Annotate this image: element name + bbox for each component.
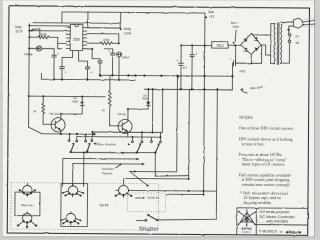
wire 7812 output (180, 44, 212, 46)
svg-text:100k: 100k (103, 38, 110, 42)
svg-text:◆Baker◆: ◆Baker◆ (285, 230, 303, 234)
label Duty 10% (15, 25, 40, 37)
svg-text:at rear of box.: at rear of box. (242, 141, 265, 146)
transformer T1 (274, 23, 282, 65)
svg-text:TIP 112: TIP 112 (49, 112, 60, 116)
fuse F1 1A SB (288, 31, 299, 45)
wire lower rail (144, 74, 233, 90)
svg-text:remains near motors yourself.: remains near motors yourself. (242, 182, 291, 187)
wire primary leads (280, 22, 293, 63)
label Up int (99, 203, 109, 207)
svg-text:Duty: Duty (124, 27, 131, 31)
wire pin connections left of U1 (28, 23, 120, 33)
wire driver feed (28, 95, 83, 98)
transistor Q1 (43, 114, 65, 134)
capacitor C5 .1 (104, 49, 115, 76)
diode D4 1N4003 (127, 88, 150, 110)
resistor R2 100k (100, 38, 112, 45)
svg-text:4700: 4700 (239, 69, 246, 73)
switch S2 shutter lever (136, 214, 216, 221)
svg-text:AVIAN: AVIAN (241, 227, 252, 231)
label Down int (135, 195, 159, 199)
svg-text:.1: .1 (56, 52, 59, 56)
switch S1b contacts (150, 132, 161, 143)
svg-text:TIP 42: TIP 42 (117, 112, 126, 116)
label U1 556 (73, 36, 80, 41)
wire bridge ac top (251, 23, 271, 63)
title text (259, 209, 295, 224)
svg-text:One of three DIN circuits show: One of three DIN circuits shown. (239, 125, 294, 130)
svg-text:UNR: UNR (232, 25, 239, 29)
wire down output (73, 162, 145, 187)
svg-text:100k: 100k (40, 32, 47, 36)
wire up output (63, 157, 140, 187)
svg-text:+12: +12 (209, 15, 215, 19)
label Motor Direction (94, 142, 131, 146)
svg-text:Cont.: Cont. (124, 31, 132, 35)
wire bridge ac right (261, 45, 271, 55)
svg-text:derating troubles.: derating troubles. (243, 200, 272, 205)
svg-text:Up int.: Up int. (99, 203, 109, 207)
wire main ground (240, 85, 263, 93)
IC U1 556 body (70, 24, 83, 50)
bridge rectifier BR1 (241, 33, 261, 54)
copyright row (259, 229, 303, 234)
label rear view (21, 203, 34, 207)
connector J2 (17, 212, 37, 229)
label Q1 TIP 112 (49, 112, 60, 116)
svg-text:1N914: 1N914 (122, 55, 130, 59)
capacitor C7 .1 (190, 45, 198, 89)
svg-text:1k: 1k (102, 108, 106, 112)
wire bridge dc out (236, 45, 262, 65)
svg-text:(Rear vie.): (Rear vie.) (21, 203, 34, 207)
IC U1 pins right (83, 28, 87, 49)
transistor Q2 (109, 109, 132, 137)
svg-text:Motor Direction: Motor Direction (96, 142, 117, 146)
wire emitter bus left (28, 127, 96, 135)
wire secondary leads (271, 24, 276, 64)
svg-text:1k: 1k (33, 109, 37, 113)
wire ground rail left (41, 73, 135, 81)
svg-text:..... with KNOBS: ..... with KNOBS (259, 219, 288, 224)
svg-text:7812: 7812 (216, 44, 224, 48)
switch S1c lever (69, 142, 74, 153)
svg-text:.1: .1 (108, 49, 111, 53)
svg-text:470: 470 (183, 66, 188, 70)
label Bus + UNR (231, 21, 240, 44)
connector J3 (62, 184, 84, 197)
svg-text:10 %: 10 % (15, 30, 22, 34)
regulator U2 7812 (212, 42, 229, 49)
wire switch feed upper (92, 131, 162, 134)
switch S1a lever (136, 143, 142, 154)
socket box J3 J4 (61, 183, 88, 226)
wire mid rail (99, 74, 233, 77)
dashed box down int (127, 193, 165, 212)
wire top feedback loop (62, 12, 88, 28)
socket box J1 J2 (15, 192, 40, 216)
switch S1b lever (154, 143, 160, 154)
capacitor C6 470 (176, 45, 187, 89)
capacitor C8 4700 (229, 57, 246, 90)
label AVIAN (241, 227, 252, 234)
wire duty control (87, 12, 123, 30)
label Q2 TIP 42 (117, 112, 126, 116)
title block frame (237, 208, 308, 236)
label Up/Down Outputs (102, 163, 122, 175)
diode D1 1N914 (24, 46, 47, 56)
notes text block (238, 115, 293, 205)
switch S1a contacts (131, 132, 142, 143)
dashed enclosure (11, 183, 159, 231)
svg-text:Down int: Down int (147, 196, 159, 200)
svg-text:.1: .1 (195, 51, 198, 55)
capacitor C1 .1 (46, 49, 59, 80)
resistor R3 1k (33, 96, 45, 124)
capacitor C4 (92, 59, 102, 76)
svg-text:1A: 1A (295, 34, 299, 38)
wire pivot bus (70, 151, 188, 187)
wire right bus B (126, 89, 191, 180)
svg-text:556: 556 (73, 36, 80, 41)
connector J1 (19, 183, 36, 196)
svg-text:+: + (65, 70, 67, 74)
switch S1c contacts (68, 131, 93, 142)
svg-text:+: + (230, 57, 232, 61)
wire right bus A (130, 75, 178, 172)
svg-text:RESEARCH: RESEARCH (242, 231, 252, 234)
connector J5 (115, 178, 133, 197)
svg-text:+: + (177, 59, 179, 63)
wire 7812 input (228, 44, 241, 46)
wire left vertical bus (28, 24, 31, 127)
capacitor C2 electrolytic (59, 50, 72, 79)
svg-text:Bus: Bus (208, 10, 214, 14)
wire switch feed lower (77, 135, 162, 138)
svg-text:many types of DC motors.: many types of DC motors. (242, 161, 285, 166)
IC U1 pins left (66, 27, 70, 48)
wire J5 to bus (132, 189, 217, 192)
wire pin to R2 (87, 34, 120, 59)
wire right bus C (166, 193, 205, 195)
wire switch feeds vertical (151, 88, 163, 132)
capacitor C3 electrolytic (78, 51, 92, 80)
diode D3 1N4003 (60, 95, 84, 115)
svg-text:NOTES:: NOTES: (239, 115, 253, 120)
label Duty Cont (124, 27, 132, 36)
svg-text:Duty: Duty (15, 25, 22, 29)
label Bus +12 (205, 10, 215, 19)
svg-text:Up/Down: Up/Down (102, 167, 115, 171)
svg-text:© MCMXCII: © MCMXCII (259, 229, 277, 233)
logo compass triangle (237, 209, 256, 227)
wire right bus D (216, 89, 217, 219)
diode D2 1N914 (115, 52, 129, 81)
svg-text:4003: 4003 (142, 97, 149, 101)
svg-text:4003: 4003 (72, 99, 79, 103)
plug P1 (293, 18, 315, 29)
svg-text:+: + (90, 71, 92, 75)
wire to down int (130, 171, 149, 186)
svg-text:1N914: 1N914 (24, 52, 32, 56)
connector J4 (60, 212, 81, 226)
label Shutter (139, 226, 159, 232)
switch S1d lever (85, 143, 90, 154)
resistor R4 1k (82, 75, 111, 126)
svg-text:Outputs: Outputs (102, 171, 113, 175)
svg-text:Shutter: Shutter (139, 226, 159, 232)
svg-text:SB: SB (295, 41, 299, 45)
wire +12 bus vertical (119, 12, 206, 194)
resistor R1 100k (28, 32, 66, 49)
